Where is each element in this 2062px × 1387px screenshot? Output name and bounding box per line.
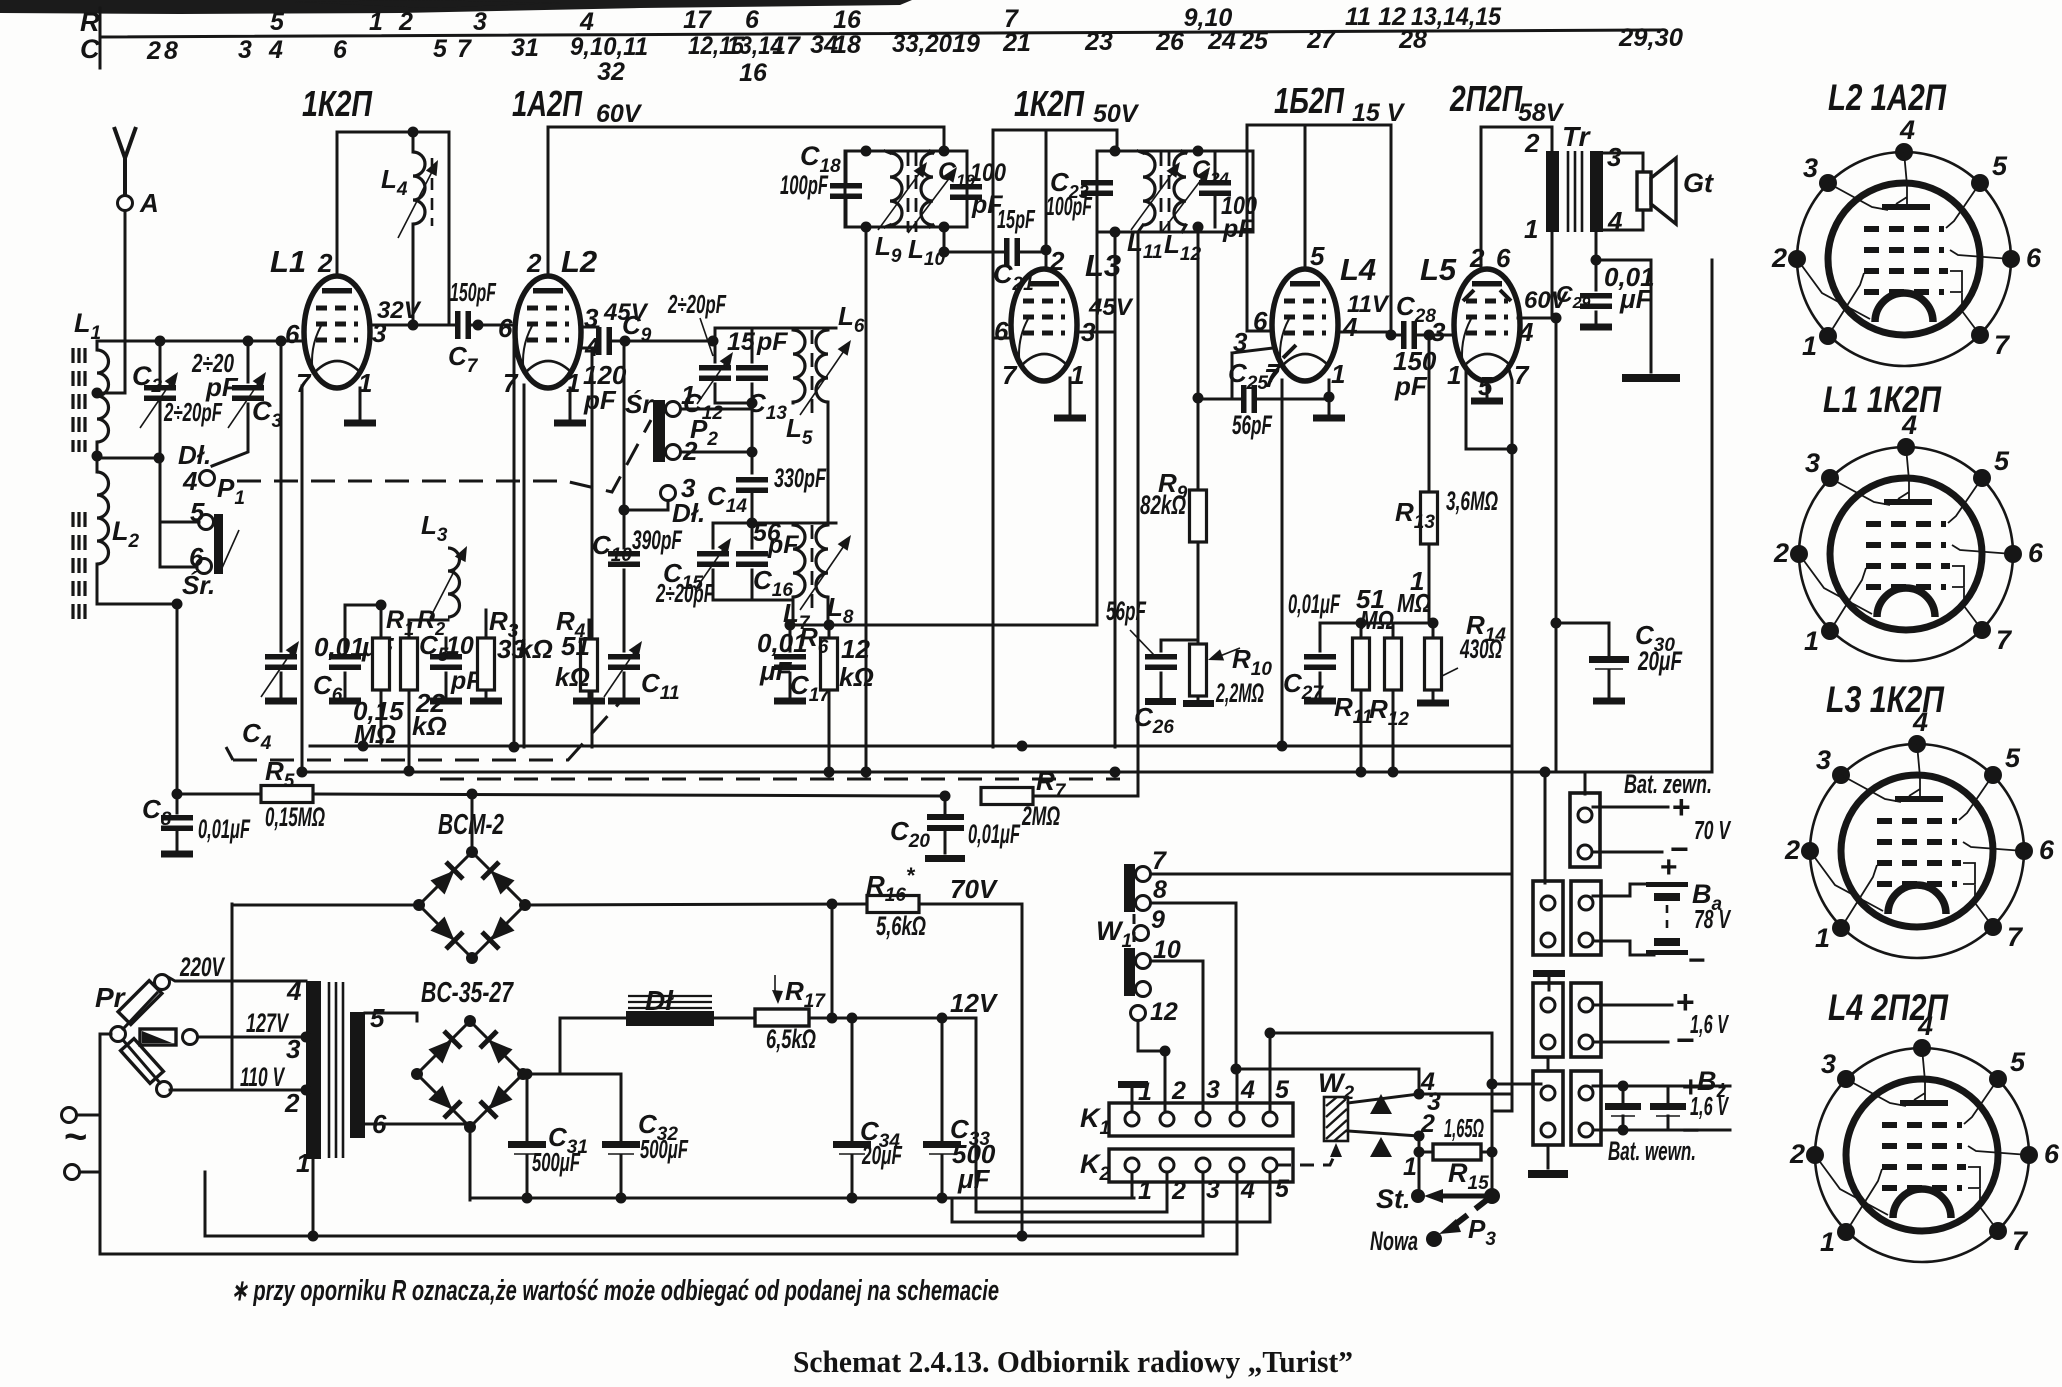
svg-text:0,15MΩ: 0,15MΩ [265,802,325,832]
wire bridge1 left feed [232,904,419,907]
svg-text:28: 28 [1398,26,1427,54]
W2 contact arms [1348,1094,1419,1103]
svg-text:15: 15 [727,328,756,356]
svg-text:150pF: 150pF [450,277,497,307]
svg-text:L4: L4 [1340,252,1376,287]
IF transformer 1 frame [845,151,967,227]
svg-text:C: C [80,34,100,64]
svg-text:12V: 12V [950,988,999,1018]
wire plate row L1 to C7 [370,324,455,327]
capacitor C13 15pF [751,328,754,403]
svg-text:6: 6 [333,36,348,64]
svg-text:2÷20pF: 2÷20pF [163,397,222,427]
coil L10 [921,153,933,225]
svg-text:MΩ: MΩ [1360,605,1394,635]
coil L6 outer [816,330,828,402]
svg-text:3: 3 [473,8,487,36]
svg-text:25: 25 [1239,27,1269,55]
capacitor C19 100pF [950,184,982,200]
svg-text:31: 31 [511,34,539,62]
svg-text:L1 1К2П: L1 1К2П [1823,379,1942,420]
capacitor C11 var [623,673,626,697]
svg-text:0,01μF: 0,01μF [968,819,1021,849]
svg-text:6: 6 [498,313,513,343]
wire pin6 L4 [1247,125,1273,331]
link rows B C [1547,1057,1550,1071]
wire filter bottom rail [470,1197,1134,1200]
svg-text:6: 6 [285,319,300,349]
tube L1 [304,276,370,388]
svg-text:11V: 11V [1347,291,1390,318]
svg-text:pF: pF [1222,215,1254,243]
tuning arrows [878,167,924,230]
cell 1 [1622,1086,1625,1130]
svg-text:BC-35-27: BC-35-27 [421,977,514,1009]
svg-text:Śr.: Śr. [182,570,215,600]
wire 50V bus [993,129,1117,132]
capacitor C18 100pF [830,183,862,199]
svg-text:μF: μF [759,656,793,686]
wire W1-10 to K1-3 [1151,961,1203,1110]
svg-text:3: 3 [1607,142,1622,172]
IF transformer 2 frame [1097,151,1253,232]
svg-text:2: 2 [146,37,161,65]
resistor R12 1M [1392,623,1395,772]
wire L6 to L8 link [827,402,830,523]
wire bus lower [298,771,1712,774]
capacitor C17 [789,625,792,697]
wire R16 right corner [919,904,1022,1236]
wire can2 right to grid row [1197,227,1200,398]
terminal pair row A [1544,772,1547,883]
svg-text:0,01μF: 0,01μF [198,814,251,844]
wire secondary 5 to bridge2 [365,1013,417,1021]
ground under L2 [569,388,572,420]
svg-text:3: 3 [1431,317,1446,347]
resistor R13 3.6M [1428,335,1431,492]
coil L5 inner [793,330,805,402]
svg-text:pF: pF [756,328,788,356]
wire 15V right drop [1390,125,1393,335]
wire pin3 L3 to drop [1077,331,1115,334]
wire L2 stage drop [1281,380,1284,746]
fuse upper [111,1027,126,1042]
capacitor C29 0.01uF [1595,232,1598,260]
cathode slash L4 [1283,345,1296,358]
svg-text:L5: L5 [1420,252,1457,287]
wire K1-5 riser [1269,1033,1272,1112]
svg-text:2: 2 [1049,246,1065,276]
svg-text:110 V: 110 V [240,1062,285,1092]
svg-text:2: 2 [1524,128,1540,158]
svg-text:51: 51 [561,631,590,661]
node tap on L1 [92,388,103,399]
svg-text:kΩ: kΩ [839,662,874,692]
scan edge artifact top [0,0,912,14]
wire can1 out to C21 [944,227,1004,252]
svg-text:4: 4 [1240,1176,1255,1204]
svg-text:390pF: 390pF [632,525,683,555]
svg-text:56pF: 56pF [1106,596,1147,626]
resistor R14 430 [1432,623,1435,699]
svg-text:2: 2 [284,1088,300,1118]
tube L2 [515,276,581,388]
svg-text:100: 100 [970,159,1006,187]
dashed gang line C4-C11 [233,700,622,760]
svg-text:+: + [1660,851,1678,884]
core dashes [1161,152,1169,232]
svg-text:2÷20pF: 2÷20pF [667,289,726,319]
svg-text:7: 7 [1152,847,1167,875]
resistor R4 51k [588,620,591,697]
svg-text:78 V: 78 V [1694,904,1732,934]
core L5/L6 [811,330,814,420]
capacitor C14 330pF [736,477,768,493]
wire long drop to bus [513,341,516,747]
svg-text:Bat. wewn.: Bat. wewn. [1608,1136,1696,1166]
svg-text:60V: 60V [596,100,643,128]
antenna symbol [114,127,136,195]
capacitor C23 100pF [1081,180,1113,196]
svg-text:220V: 220V [179,952,225,982]
wire bridge1 right to R16 [525,904,867,905]
capacitor C31 500uF [526,1074,529,1140]
wire mains bottom rails [205,1235,1203,1238]
svg-text:pF: pF [767,531,799,559]
svg-text:2: 2 [526,248,542,278]
wire 58V bus [1481,127,1552,271]
capacitor C20 0.01uF [944,796,947,813]
svg-text:16: 16 [833,6,862,34]
potentiometer R17 6.5k [714,1017,755,1020]
svg-text:4: 4 [182,466,198,496]
svg-text:20μF: 20μF [1637,646,1683,676]
svg-text:17: 17 [683,6,712,34]
capacitor C6 [345,605,381,697]
svg-text:Dł.: Dł. [672,498,705,528]
svg-text:1: 1 [1403,1153,1417,1181]
switch P1 bar [214,514,223,574]
svg-text:5: 5 [433,35,448,63]
svg-text:1: 1 [1070,360,1084,390]
cell 2 [1667,1086,1670,1130]
svg-text:1А2П: 1А2П [512,83,583,124]
capacitor C8 0.01uF [172,789,183,800]
wire contact3 right [1419,1093,1512,1096]
capacitor C30 20uF [1556,623,1609,655]
wire 12V right corner [975,1018,978,1212]
svg-text:27: 27 [1306,26,1336,54]
svg-text:7: 7 [1514,360,1530,390]
svg-text:20μF: 20μF [861,1140,902,1170]
svg-text:2: 2 [1469,243,1485,273]
box C15 C16 L7 [713,523,836,600]
svg-text:8: 8 [164,37,178,65]
beam plates L5 [1463,290,1511,301]
coil L11 [1143,153,1155,225]
wire contact1 to box [681,408,752,411]
capacitor C2 (2:20pF trimmer) [159,341,162,458]
wire pin1 L2 drop [591,348,594,747]
svg-text:5: 5 [1275,1175,1290,1203]
capacitor C3 (2:20pF trimmer) [212,341,248,466]
svg-text:Nowa: Nowa [1370,1226,1418,1256]
svg-text:33,20: 33,20 [892,30,952,58]
svg-text:L2: L2 [561,244,597,279]
T bar over row B [1533,970,1565,977]
svg-text:6,5kΩ: 6,5kΩ [766,1024,816,1054]
svg-text:5,6kΩ: 5,6kΩ [876,911,926,941]
svg-text:24: 24 [1207,27,1236,55]
resistor R9 82k [1197,398,1200,490]
svg-text:−: − [1688,944,1706,977]
resistor R11 51M [1360,623,1363,772]
capacitor C15 trimmer [697,551,729,567]
svg-text:1: 1 [296,1148,310,1178]
wire primary bottom drop [312,1159,315,1236]
svg-text:kΩ: kΩ [555,662,590,692]
svg-text:26: 26 [1155,28,1185,56]
ruler axis [99,8,102,68]
svg-text:4: 4 [579,8,594,36]
capacitor C10 390pF [623,341,626,651]
dashed gang line P1 [237,420,651,492]
svg-text:15 V: 15 V [1352,99,1406,127]
node A terminal [118,196,133,211]
ferrite core dash lines [73,348,85,622]
svg-text:6: 6 [994,316,1009,346]
resistor R1 0.15M [380,605,383,746]
svg-text:St.: St. [1376,1184,1411,1214]
wire W1-7 right [1151,873,1512,876]
svg-text:7: 7 [503,368,519,398]
wire 15V bus [1247,125,1391,270]
capacitor C34 20uF [847,1013,858,1024]
svg-text:12: 12 [1150,998,1178,1026]
wire W1-12 stub [1138,1021,1165,1051]
wire pin4 L5 to 60V node [1518,317,1556,320]
svg-text:500μF: 500μF [532,1147,581,1177]
wire pin4 L4 out [1337,331,1391,334]
svg-text:5: 5 [270,8,285,36]
wire C29 node to ground right [1596,260,1651,372]
wire AVC rail [793,624,1097,627]
svg-text:A: A [139,188,159,218]
capacitor C12 trimmer [699,365,731,381]
svg-text:2: 2 [317,248,333,278]
capacitor C9 120pF [581,341,596,348]
wire L2 bottom [97,564,177,604]
pin2 L3 riser [1045,130,1048,270]
resistor R7 2M [940,791,951,802]
svg-text:2: 2 [398,8,413,36]
svg-text:100pF: 100pF [780,170,829,200]
svg-text:10: 10 [446,632,474,660]
svg-text:8: 8 [1153,876,1167,904]
battery Ba [1593,884,1654,896]
K1 pin1 antenna bar [1118,1081,1148,1088]
svg-text:100pF: 100pF [1046,191,1093,221]
svg-text:58V: 58V [1518,99,1565,127]
svg-text:+: + [1672,789,1691,825]
wire contact4 into row C [1492,1083,1541,1086]
svg-text:2,2MΩ: 2,2MΩ [1215,678,1264,708]
wire bridge1 top riser [471,794,474,852]
svg-text:19: 19 [952,30,980,58]
wires Bz cells [1593,1085,1730,1088]
svg-text:Tr: Tr [1562,121,1592,152]
wire antenna down [99,211,125,393]
potentiometer arm P3 dashed to Nowa [1452,1199,1488,1227]
capacitor C7 150pF [455,311,471,339]
svg-text:4: 4 [1240,1076,1255,1104]
wire bridge2 right out [523,1073,621,1076]
svg-text:29,30: 29,30 [1618,24,1683,52]
wire pin6 L3 [993,337,1011,340]
svg-text:18: 18 [833,31,861,59]
svg-text:1: 1 [369,8,383,36]
svg-text:2÷20pF: 2÷20pF [655,578,714,608]
svg-text:50V: 50V [1093,100,1140,128]
svg-text:R: R [80,7,100,37]
svg-text:3: 3 [286,1034,301,1064]
wire right edge drop [1711,260,1714,772]
svg-text:23: 23 [1084,28,1113,56]
svg-text:1: 1 [1524,214,1538,244]
wire W1-8 right [1151,903,1236,1069]
oscillator box C12 C13 [715,328,836,403]
svg-text:6: 6 [745,6,760,34]
svg-text:1К2П: 1К2П [302,83,373,124]
svg-text:2: 2 [1171,1077,1186,1105]
dashed gang line lower [440,778,1120,781]
svg-text:1: 1 [681,380,695,410]
svg-text:9,10,11: 9,10,11 [570,33,648,61]
svg-text:2: 2 [1420,1110,1435,1138]
fuse lower [123,1040,160,1083]
svg-text:21: 21 [1002,29,1031,57]
ruler C row numbers [146,24,1683,87]
wire bridge2 bottom drop [469,1130,472,1200]
wire 50V left drop [992,130,995,747]
wire Tr primary bottom [1551,232,1554,318]
K2 pin drops [1131,1172,1134,1198]
capacitor C32 500uF [620,1074,623,1140]
resistor R6 12k [828,625,831,772]
transformer mains secondary [350,1012,365,1138]
svg-text:kΩ: kΩ [518,634,553,664]
svg-text:1: 1 [1138,1177,1152,1205]
svg-text:1: 1 [1331,359,1345,389]
svg-text:82kΩ: 82kΩ [1140,490,1186,520]
resistor R3 33k [485,610,488,697]
svg-text:15pF: 15pF [997,204,1036,234]
capacitor C5 10pF [445,638,448,697]
wire bus upper right drop [1492,746,1512,1111]
svg-text:4: 4 [1518,317,1534,347]
wire can1 left drop [865,227,868,772]
ground under L3 [1069,378,1072,414]
svg-text:16: 16 [739,59,768,87]
svg-text:5: 5 [370,1003,385,1033]
svg-text:430Ω: 430Ω [1459,634,1502,664]
speaker Gt [1603,153,1643,230]
wire 60V bus [548,127,944,277]
ground under L4 cathode [1328,380,1331,414]
resistor R16 5.6k [867,896,919,913]
wire L2 bottom to C8 drop [176,604,179,794]
tube L5 [1454,269,1520,381]
svg-text:0,01μF: 0,01μF [1288,589,1341,619]
wire R16 left drop [831,904,834,1018]
wire 60V corner into can1 [943,127,946,151]
svg-text:70V: 70V [950,874,999,904]
svg-text:3: 3 [1206,1076,1220,1104]
svg-text:Śr: Śr [625,389,654,419]
svg-text:1,6 V: 1,6 V [1690,1009,1730,1039]
svg-text:12: 12 [841,634,870,664]
svg-text:500μF: 500μF [640,1134,689,1164]
resistor R2 22k [408,690,411,771]
capacitor C33 500uF [937,1013,948,1024]
tuning arrows [1131,167,1177,230]
capacitor C21 15pF [1004,238,1020,266]
svg-text:pF: pF [583,385,617,415]
svg-text:3,6MΩ: 3,6MΩ [1446,486,1498,516]
svg-text:330pF: 330pF [774,463,827,493]
ground under L1 [359,388,362,420]
svg-text:1: 1 [1447,360,1461,390]
svg-text:56pF: 56pF [1232,410,1273,440]
svg-text:45V: 45V [1088,294,1134,321]
ground under row C [1547,1145,1550,1168]
wire pin7 L5 loop [1466,366,1512,449]
transformer mains primary [306,981,321,1159]
ruler R row numbers [270,3,1502,36]
svg-text:17: 17 [772,32,801,60]
wire grid node rail [1320,622,1433,625]
svg-text:7: 7 [457,35,472,63]
wire secondary 6 to bridge2 [365,1124,470,1127]
svg-text:1,65Ω: 1,65Ω [1444,1113,1484,1143]
svg-text:MΩ: MΩ [1397,588,1431,618]
svg-text:Gt: Gt [1683,168,1714,198]
tube L3 [1011,269,1077,381]
wire 45V plate lead [581,327,598,341]
svg-text:kΩ: kΩ [412,711,447,741]
ground under L5 [1486,381,1489,397]
fuse holder middle [140,1029,176,1045]
resistor R10 2.2M pot [1197,544,1200,700]
wire L1 bottom to L2 [92,451,103,462]
wire pin3 L4 [1232,348,1273,399]
wire K2-5 dashed to W2 [1277,1152,1336,1165]
svg-text:70 V: 70 V [1694,815,1732,845]
capacitor C28 150pF [1386,330,1397,341]
svg-text:pF: pF [1394,371,1428,401]
svg-text:2П2П: 2П2П [1449,78,1523,119]
svg-text:127V: 127V [246,1008,289,1038]
svg-text:~: ~ [64,1115,87,1159]
svg-text:6: 6 [1496,243,1511,273]
tube L4 [1272,269,1338,381]
svg-text:3: 3 [238,36,252,64]
coil L8 [816,525,828,597]
capacitor C24 100pF [1199,180,1231,196]
wire input rail [97,340,304,343]
svg-text:1К2П: 1К2П [1014,83,1085,124]
capacitor C25 56pF [1198,398,1241,401]
